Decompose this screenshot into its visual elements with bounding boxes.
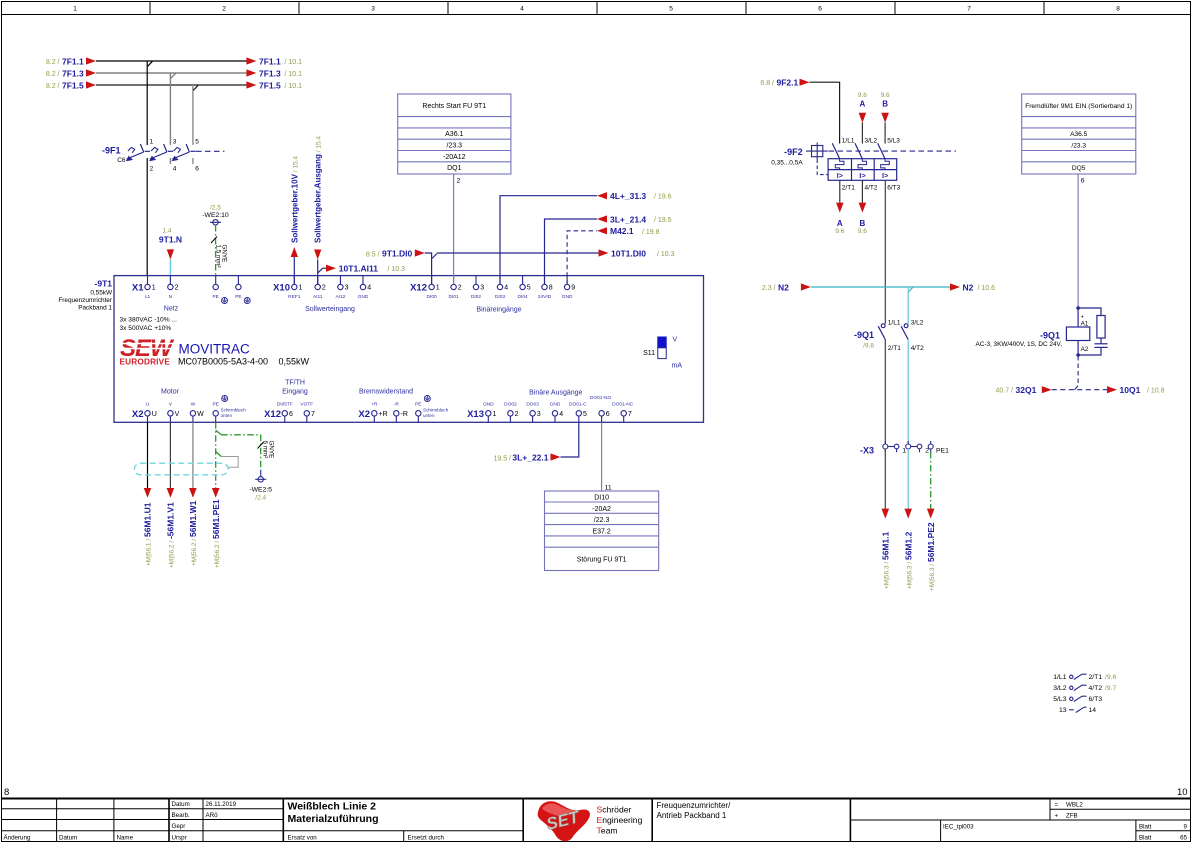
- svg-text:1: 1: [152, 285, 156, 292]
- wire tap L1: [147, 61, 152, 145]
- svg-text:2.3 /: 2.3 /: [762, 285, 776, 292]
- svg-text:Eingang: Eingang: [282, 389, 308, 396]
- svg-text:Urspr: Urspr: [172, 834, 187, 841]
- svg-text:3L+_22.1: 3L+_22.1: [512, 453, 548, 463]
- svg-text:8: 8: [1116, 6, 1120, 13]
- wire Sollwertgeber.Ausgang + 10T1.AI11: [314, 136, 405, 285]
- wire 9T1.DI0 / 10T1.DI0: [366, 248, 675, 284]
- svg-text:0,35...0,5A: 0,35...0,5A: [771, 160, 803, 167]
- svg-text:5/L3: 5/L3: [887, 138, 900, 145]
- svg-text:Bremswiderstand: Bremswiderstand: [359, 389, 413, 396]
- svg-text:40.7 /: 40.7 /: [995, 388, 1013, 395]
- motor breaker -9F2: [771, 138, 956, 192]
- svg-text:PE1: PE1: [936, 448, 949, 455]
- svg-text:3x 500VAC +10%: 3x 500VAC +10%: [120, 325, 172, 332]
- svg-text:ZFB: ZFB: [1066, 813, 1078, 820]
- svg-text:=: =: [1055, 802, 1059, 809]
- svg-text:6 mm²: 6 mm²: [262, 441, 269, 459]
- svg-text:-R: -R: [401, 411, 408, 418]
- svg-text:3/L2: 3/L2: [1053, 685, 1066, 692]
- svg-text:4: 4: [559, 411, 563, 418]
- svg-text:IEC_tpl003: IEC_tpl003: [943, 824, 974, 831]
- svg-text:AI11: AI11: [313, 294, 323, 300]
- svg-text:-X3: -X3: [860, 446, 874, 456]
- svg-text:Schröder: Schröder: [597, 805, 632, 815]
- svg-text:/9.8: /9.8: [863, 343, 874, 350]
- svg-text:3: 3: [537, 411, 541, 418]
- wire 32Q1 - 10Q1: [995, 385, 1164, 395]
- terminal -WE2:10: [202, 205, 229, 225]
- wire tap L3: [193, 85, 198, 145]
- inverter -9T1 body: [114, 276, 704, 423]
- svg-text:Schirmblech: Schirmblech: [221, 408, 247, 413]
- svg-text:L1: L1: [145, 294, 151, 300]
- svg-text:Motor: Motor: [161, 389, 180, 396]
- svg-text:/ 10.1: / 10.1: [285, 59, 303, 66]
- svg-text:Engineering: Engineering: [597, 815, 643, 825]
- svg-text:8.5 /: 8.5 /: [366, 251, 380, 258]
- svg-text:X12: X12: [264, 409, 281, 420]
- svg-text:A36.5: A36.5: [1070, 131, 1088, 138]
- coil -9Q1: [975, 308, 1089, 355]
- svg-text:DI05TF: DI05TF: [277, 401, 293, 407]
- svg-text:6: 6: [195, 166, 199, 173]
- svg-text:Blatt: Blatt: [1139, 824, 1152, 831]
- wire 56M1.2: [903, 449, 913, 589]
- svg-text:1,5 mm²: 1,5 mm²: [215, 245, 222, 268]
- svg-text:/23.3: /23.3: [1071, 143, 1086, 150]
- svg-text:-9T1: -9T1: [95, 279, 113, 289]
- wire 4L+_31.3: [500, 191, 672, 284]
- svg-text:Datum: Datum: [172, 801, 190, 808]
- svg-text:W: W: [197, 411, 204, 418]
- svg-text:9.6: 9.6: [881, 92, 890, 99]
- svg-text:/ 10.3: / 10.3: [657, 251, 675, 258]
- svg-text:4: 4: [367, 285, 371, 292]
- wire B output: [858, 180, 867, 235]
- svg-text:-9Q1: -9Q1: [1040, 331, 1060, 341]
- svg-text:-9F2: -9F2: [784, 147, 803, 157]
- svg-text:2/T1: 2/T1: [888, 345, 901, 352]
- svg-text:Team: Team: [597, 826, 618, 836]
- svg-text:7F1.3: 7F1.3: [62, 68, 84, 78]
- svg-text:6/T3: 6/T3: [887, 185, 900, 192]
- svg-text:N: N: [169, 294, 173, 300]
- svg-text:4/T2: 4/T2: [865, 185, 878, 192]
- svg-text:Freuquenzumrichter/: Freuquenzumrichter/: [657, 801, 732, 810]
- wire motor PE (GNYE): [211, 422, 221, 568]
- svg-text:/ 10.3: / 10.3: [388, 266, 406, 273]
- wire 2/T1 to X3: [884, 340, 886, 444]
- svg-text:0,55kW: 0,55kW: [90, 290, 113, 297]
- svg-text:7F1.1: 7F1.1: [62, 56, 84, 66]
- svg-text:2: 2: [175, 285, 179, 292]
- svg-text:unten: unten: [221, 413, 233, 418]
- svg-text:C6: C6: [117, 157, 126, 164]
- svg-text:3/L2: 3/L2: [865, 138, 878, 145]
- svg-text:A: A: [860, 100, 866, 109]
- svg-text:Antrieb Packband 1: Antrieb Packband 1: [657, 811, 727, 820]
- wire X13:5 3L+_22.1: [493, 422, 578, 462]
- svg-text:/ 19.6: / 19.6: [654, 194, 672, 201]
- svg-text:V: V: [673, 337, 678, 344]
- svg-text:8: 8: [4, 787, 9, 798]
- svg-text:Sollwertgeber.Ausgang / 15.4: Sollwertgeber.Ausgang / 15.4: [314, 136, 323, 243]
- svg-text:DI01: DI01: [449, 294, 459, 300]
- svg-text:10T1.DI0: 10T1.DI0: [611, 248, 646, 258]
- MOVITRAC type text: [178, 342, 310, 367]
- GNYE branch to -WE2:5: [216, 430, 275, 470]
- svg-text:DQ5: DQ5: [1072, 165, 1086, 172]
- svg-text:+: +: [1081, 315, 1084, 321]
- svg-text:8.2 /: 8.2 /: [46, 71, 60, 78]
- svg-text:5: 5: [195, 138, 199, 145]
- svg-text:10Q1: 10Q1: [1120, 385, 1141, 395]
- wire 7F1.5: [46, 80, 302, 90]
- PLC box Rechts Start FU 9T1: [398, 94, 511, 185]
- svg-text:6: 6: [289, 411, 293, 418]
- svg-text:REF1: REF1: [288, 294, 301, 300]
- svg-text:A2: A2: [1081, 346, 1089, 353]
- svg-text:4/T2: 4/T2: [1089, 685, 1103, 692]
- svg-text:9T1.N: 9T1.N: [159, 235, 182, 245]
- svg-text:/ 19.8: / 19.8: [642, 229, 660, 236]
- svg-text:Bearb.: Bearb.: [172, 812, 191, 819]
- svg-text:GND: GND: [550, 401, 561, 407]
- svg-text:-9F1: -9F1: [102, 146, 121, 156]
- wire 7F1.1: [46, 56, 302, 66]
- device tag -9T1: [58, 279, 113, 312]
- wire Sollwertgeber.10V: [290, 156, 299, 285]
- earth symbols at PE terminals: [222, 298, 228, 304]
- svg-text:A: A: [837, 219, 843, 228]
- svg-text:A1: A1: [1081, 321, 1089, 328]
- svg-text:unten: unten: [423, 413, 435, 418]
- svg-text:/2.4: /2.4: [255, 494, 266, 501]
- svg-text:10T1.AI11: 10T1.AI11: [339, 264, 378, 274]
- svg-text:9.6: 9.6: [858, 228, 867, 235]
- motor cable shield symbol: [135, 452, 239, 475]
- svg-text:Netz: Netz: [164, 306, 179, 313]
- svg-text:3L+_21.4: 3L+_21.4: [610, 214, 646, 224]
- svg-text:7: 7: [311, 411, 315, 418]
- wire 56M1.PE2: [926, 452, 936, 591]
- svg-text:1: 1: [299, 285, 303, 292]
- svg-text:E37.2: E37.2: [592, 528, 610, 535]
- svg-text:6.8 /: 6.8 /: [760, 80, 774, 87]
- PLC box Stoerung FU 9T1: [545, 491, 659, 571]
- svg-text:DO02: DO02: [504, 401, 517, 407]
- wire 7F1.3: [46, 68, 302, 78]
- svg-text:3/L2: 3/L2: [911, 319, 924, 326]
- svg-text:V: V: [175, 411, 180, 418]
- section labels inside inverter: [161, 306, 583, 397]
- svg-text:-20A12: -20A12: [443, 154, 466, 161]
- svg-text:PE: PE: [415, 401, 421, 407]
- svg-text:DI02: DI02: [471, 294, 481, 300]
- svg-text:B: B: [882, 100, 888, 109]
- svg-text:Sollwertgeber.10V / 15.4: Sollwertgeber.10V / 15.4: [290, 156, 299, 243]
- svg-text:24VID: 24VID: [538, 294, 552, 300]
- wire DQ5 to coil: [1077, 174, 1079, 308]
- svg-text:DI10: DI10: [594, 495, 609, 502]
- svg-text:2: 2: [222, 6, 226, 13]
- svg-text:6: 6: [818, 6, 822, 13]
- svg-text:Blatt: Blatt: [1139, 835, 1152, 842]
- svg-text:5/L3: 5/L3: [1053, 696, 1066, 703]
- svg-text:X1: X1: [132, 283, 144, 294]
- wire 4/T2 to X3: [907, 340, 909, 444]
- svg-text:X2: X2: [358, 409, 370, 420]
- svg-text:U: U: [152, 411, 157, 418]
- svg-text:MC07B0005-5A3-4-00: MC07B0005-5A3-4-00: [178, 357, 268, 367]
- svg-text:32Q1: 32Q1: [1016, 385, 1037, 395]
- wire L1 to X1:1: [146, 158, 148, 276]
- wire N2: [762, 282, 995, 292]
- svg-text:1: 1: [73, 6, 77, 13]
- circuit breaker -9F1: [102, 138, 224, 172]
- wire 3L+_21.4: [545, 214, 672, 284]
- svg-text:ARö: ARö: [206, 812, 219, 819]
- wire B input: [881, 92, 890, 144]
- svg-text:5: 5: [527, 285, 531, 292]
- svg-text:8.2 /: 8.2 /: [46, 59, 60, 66]
- svg-text:N2: N2: [963, 282, 974, 292]
- svg-text:EURODRIVE: EURODRIVE: [120, 358, 171, 367]
- svg-text:X10: X10: [273, 283, 290, 294]
- svg-text:Schirmblech: Schirmblech: [423, 408, 449, 413]
- svg-text:1.4: 1.4: [162, 228, 171, 235]
- wire tap L2: [170, 73, 175, 145]
- company logo: [538, 801, 643, 841]
- inverter terminal group labels: [132, 283, 484, 420]
- svg-text:Datum: Datum: [59, 834, 77, 841]
- svg-text:DI00: DI00: [427, 294, 437, 300]
- svg-text:2: 2: [322, 285, 326, 292]
- svg-text:GND: GND: [483, 401, 494, 407]
- wire motor W: [188, 422, 198, 566]
- svg-text:X12: X12: [410, 283, 427, 294]
- svg-text:mA: mA: [672, 363, 683, 370]
- wire A output: [835, 180, 844, 235]
- title block: [2, 799, 1191, 843]
- svg-text:2: 2: [150, 166, 154, 173]
- terminal -WE2:5: [249, 470, 272, 501]
- svg-text:Frequenzumrichter: Frequenzumrichter: [58, 297, 113, 304]
- svg-text:/ 10.1: / 10.1: [285, 83, 303, 90]
- svg-text:2/T1: 2/T1: [1089, 674, 1103, 681]
- svg-text:Ersetzt durch: Ersetzt durch: [408, 834, 445, 841]
- wire DQ1 to X12:2: [453, 174, 455, 284]
- wire motor V: [166, 422, 176, 568]
- svg-text:AI12: AI12: [335, 294, 345, 300]
- svg-text:8: 8: [549, 285, 553, 292]
- svg-text:4: 4: [520, 6, 524, 13]
- svg-text:9F2.1: 9F2.1: [777, 78, 799, 88]
- svg-text:TF/TH: TF/TH: [285, 380, 305, 387]
- svg-text:Ersatz von: Ersatz von: [288, 834, 318, 841]
- svg-text:DO01-NO: DO01-NO: [590, 395, 612, 401]
- svg-text:VOTF: VOTF: [300, 401, 313, 407]
- PLC box Fremdluefter 9M1: [1022, 94, 1136, 185]
- SEW logo: [120, 335, 178, 367]
- svg-text:DI03: DI03: [495, 294, 505, 300]
- svg-text:1/L1: 1/L1: [888, 319, 901, 326]
- wire N 9T1.N: [159, 228, 182, 277]
- svg-text:I>: I>: [859, 171, 866, 180]
- svg-text:Rechts Start FU 9T1: Rechts Start FU 9T1: [422, 103, 486, 110]
- svg-text:3: 3: [480, 285, 484, 292]
- svg-text:4: 4: [173, 166, 177, 173]
- svg-text:-WE2:5: -WE2:5: [249, 486, 272, 493]
- svg-text:3: 3: [345, 285, 349, 292]
- svg-text:Fremdlüfter 9M1 EIN (Sortierba: Fremdlüfter 9M1 EIN (Sortierband 1): [1025, 103, 1132, 110]
- svg-text:4/T2: 4/T2: [911, 345, 924, 352]
- wire 56M1.1: [881, 449, 891, 589]
- svg-text:N2: N2: [778, 282, 789, 292]
- svg-text:9T1.DI0: 9T1.DI0: [382, 249, 413, 259]
- column numbers: [73, 6, 1120, 13]
- svg-text:M42.1: M42.1: [610, 226, 634, 236]
- svg-text:9.6: 9.6: [858, 92, 867, 99]
- wire X13:6 to Stoerung box: [602, 422, 612, 491]
- svg-text:I>: I>: [882, 171, 889, 180]
- svg-text:1: 1: [150, 138, 154, 145]
- svg-text:4: 4: [504, 285, 508, 292]
- wire 9F2.1 feed: [760, 78, 839, 144]
- svg-text:1: 1: [902, 448, 906, 455]
- svg-text:19.5 /: 19.5 /: [493, 455, 511, 462]
- svg-text:PE: PE: [235, 294, 241, 300]
- svg-text:7F1.1: 7F1.1: [259, 56, 281, 66]
- svg-text:WBL2: WBL2: [1066, 802, 1083, 809]
- svg-text:/ 10.6: / 10.6: [978, 285, 996, 292]
- svg-text:1/L1: 1/L1: [1053, 674, 1066, 681]
- svg-text:2/T1: 2/T1: [842, 185, 855, 192]
- svg-text:+: +: [1055, 813, 1059, 820]
- contact mirror -9Q1: [1053, 674, 1116, 714]
- svg-text:PE: PE: [212, 294, 218, 300]
- svg-text:1/L1: 1/L1: [842, 138, 855, 145]
- svg-text:S11: S11: [643, 350, 655, 357]
- switch S11: [643, 337, 682, 370]
- svg-text:Sollwerteingang: Sollwerteingang: [305, 306, 355, 313]
- svg-text:-20A2: -20A2: [592, 506, 611, 513]
- svg-text:6/T3: 6/T3: [1089, 696, 1103, 703]
- svg-text:U: U: [146, 401, 150, 407]
- svg-text:AC-3, 3KW/400V, 1S, DC 24V,: AC-3, 3KW/400V, 1S, DC 24V,: [975, 341, 1062, 348]
- svg-text:/22.3: /22.3: [594, 517, 610, 524]
- svg-text:14: 14: [1089, 707, 1097, 714]
- svg-text:Störung FU 9T1: Störung FU 9T1: [577, 557, 627, 564]
- svg-text:7F1.3: 7F1.3: [259, 68, 281, 78]
- svg-text:+R: +R: [371, 401, 378, 407]
- svg-text:X13: X13: [467, 409, 484, 420]
- svg-text:DO03: DO03: [526, 401, 539, 407]
- svg-text:2: 2: [458, 285, 462, 292]
- svg-text:26.11.2019: 26.11.2019: [206, 801, 237, 808]
- svg-text:GND: GND: [358, 294, 369, 300]
- svg-text:/2.5: /2.5: [210, 205, 221, 212]
- svg-text:I>: I>: [837, 171, 844, 180]
- RC suppressor: [1078, 308, 1108, 355]
- svg-text:9.6: 9.6: [835, 228, 844, 235]
- svg-text:65: 65: [1180, 835, 1187, 842]
- svg-text:Packband 1: Packband 1: [78, 305, 112, 312]
- svg-text:+R: +R: [379, 411, 388, 418]
- svg-text:3: 3: [173, 138, 177, 145]
- svg-text:DO01-NC: DO01-NC: [612, 401, 634, 407]
- terminal strip -X3: [860, 441, 949, 456]
- svg-text:10: 10: [1177, 787, 1188, 798]
- svg-text:9: 9: [571, 285, 575, 292]
- svg-text:7: 7: [967, 6, 971, 13]
- svg-text:/9.7: /9.7: [1105, 685, 1117, 692]
- svg-text:9: 9: [1184, 824, 1188, 831]
- svg-text:MOVITRAC: MOVITRAC: [179, 342, 251, 357]
- svg-text:13: 13: [1059, 707, 1067, 714]
- svg-text:Weißblech Linie 2: Weißblech Linie 2: [288, 801, 377, 813]
- svg-text:0,55kW: 0,55kW: [279, 357, 310, 367]
- svg-text:DI04: DI04: [518, 294, 528, 300]
- svg-text:DO01-C: DO01-C: [569, 401, 587, 407]
- svg-text:1: 1: [493, 411, 497, 418]
- svg-text:-WE2:10: -WE2:10: [202, 212, 229, 219]
- svg-text:/ 10.8: / 10.8: [1147, 388, 1165, 395]
- svg-text:X2: X2: [132, 409, 144, 420]
- svg-text:Materialzuführung: Materialzuführung: [288, 813, 379, 825]
- svg-text:GND: GND: [562, 294, 573, 300]
- svg-text:Änderung: Änderung: [4, 834, 31, 841]
- svg-text:/9.6: /9.6: [1105, 674, 1117, 681]
- svg-text:5: 5: [583, 411, 587, 418]
- svg-text:7F1.5: 7F1.5: [259, 80, 281, 90]
- wire N2 down to contactor: [907, 287, 909, 324]
- svg-text:/ 19.5: / 19.5: [654, 217, 672, 224]
- svg-text:Binäreingänge: Binäreingänge: [476, 307, 521, 314]
- svg-text:4L+_31.3: 4L+_31.3: [610, 191, 646, 201]
- svg-text:8.2 /: 8.2 /: [46, 83, 60, 90]
- voltage ratings text: [120, 317, 178, 333]
- svg-text:Name: Name: [117, 834, 134, 841]
- svg-text:6: 6: [606, 411, 610, 418]
- wire 6/T3 down: [884, 180, 886, 323]
- svg-text:W: W: [191, 401, 196, 407]
- Schirmblech labels: [221, 408, 449, 419]
- wire coil to 32Q1 link (dashed): [1077, 356, 1079, 386]
- node coil top junction: [1076, 306, 1080, 310]
- svg-text:PE: PE: [212, 401, 218, 407]
- svg-text:7: 7: [628, 411, 632, 418]
- svg-text:Gepr: Gepr: [172, 823, 186, 830]
- svg-text:2: 2: [457, 178, 461, 185]
- svg-text:A36.1: A36.1: [445, 131, 463, 138]
- svg-text:Binäre Ausgänge: Binäre Ausgänge: [529, 390, 582, 397]
- contactor -9Q1 main contacts: [854, 319, 924, 352]
- svg-text:-R: -R: [394, 401, 400, 407]
- node coil bottom junction: [1076, 353, 1080, 357]
- svg-text:1: 1: [436, 285, 440, 292]
- wire GNYE to PE: [211, 225, 228, 276]
- svg-text:/23.3: /23.3: [447, 143, 463, 150]
- wire M42.1 (dashed): [567, 226, 660, 284]
- svg-text:6: 6: [1081, 178, 1085, 185]
- wire motor U: [143, 422, 153, 566]
- svg-text:DQ1: DQ1: [447, 165, 462, 172]
- svg-text:-9Q1: -9Q1: [854, 330, 874, 340]
- svg-text:3: 3: [371, 6, 375, 13]
- svg-text:2: 2: [515, 411, 519, 418]
